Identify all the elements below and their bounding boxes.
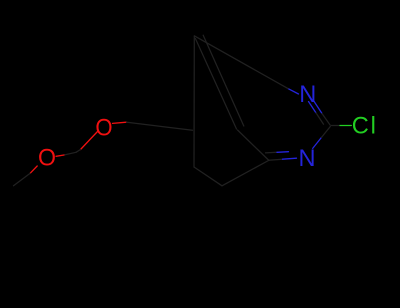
wire N1=C2 second line blue half [309,102,317,113]
wire O1 to ring, red half [113,122,127,123]
wire C4=N3 second line blue half [277,151,289,154]
wire C2-Cl dark half [332,125,341,127]
wire steep double bond line 1 [195,39,236,130]
wire O2-CH3 dark half [14,173,31,185]
wire CH2-O2 red half [56,155,64,156]
wire W to C4 [238,130,270,161]
wire O1-CH2 red half [81,132,98,150]
svg-text:Cl: Cl [352,113,376,139]
wire steep double bond line 2 [203,35,244,126]
wire vertical ring edge [193,36,195,167]
svg-text:O: O [38,145,56,171]
wire C4=N3 main line blue half [283,158,297,159]
svg-text:N: N [299,82,316,108]
wire bottom-left ring edge [194,167,222,186]
wire C2-Cl green half [340,125,351,127]
wire O2-CH3 red half [30,166,37,173]
wire O1-CH2 dark half [76,150,81,153]
wire N1=C2 second line dark half [316,113,324,124]
wire N1=C2 main line blue half [314,101,322,114]
svg-text:N: N [299,146,316,172]
wire C4=N3 second line dark half [266,151,278,154]
wire ring edge to C4 [222,161,269,186]
wire N3-C2 dark half [322,127,331,138]
svg-text:O: O [95,115,112,141]
wire N1=C2 main line dark half [322,114,330,126]
wire CH2-O2 dark half [64,152,76,155]
wire N3-C2 blue half [313,137,322,148]
wire long bond from N1 to top-left vertex, blue stub near N1 [288,89,299,94]
wire O1 to ring, dark part [127,122,193,130]
wire C4=N3 main line dark half [269,159,283,160]
